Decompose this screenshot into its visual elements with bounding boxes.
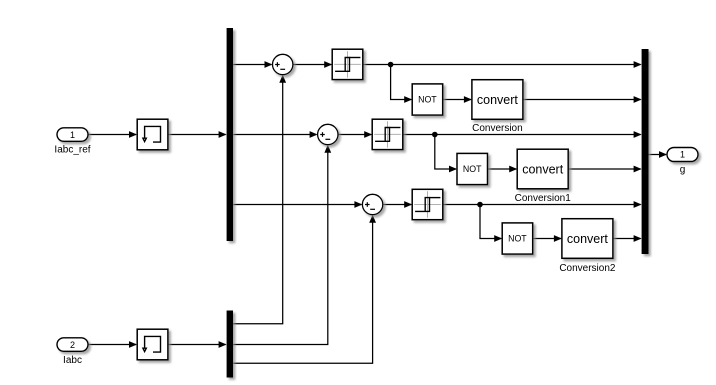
svg-text:convert: convert bbox=[567, 232, 609, 246]
svg-text:Iabc_ref: Iabc_ref bbox=[54, 144, 90, 155]
svg-text:Iabc: Iabc bbox=[63, 355, 82, 366]
svg-text:convert: convert bbox=[477, 93, 519, 107]
svg-text:Conversion1: Conversion1 bbox=[515, 193, 572, 204]
svg-text:1: 1 bbox=[680, 150, 685, 160]
svg-text:NOT: NOT bbox=[508, 233, 527, 243]
svg-text:1: 1 bbox=[70, 130, 75, 140]
svg-text:convert: convert bbox=[522, 162, 564, 176]
svg-text:Conversion: Conversion bbox=[472, 123, 523, 134]
svg-text:2: 2 bbox=[70, 340, 75, 350]
svg-text:Conversion2: Conversion2 bbox=[559, 263, 616, 274]
svg-text:g: g bbox=[680, 164, 686, 175]
svg-text:NOT: NOT bbox=[418, 94, 437, 104]
svg-text:NOT: NOT bbox=[463, 164, 482, 174]
